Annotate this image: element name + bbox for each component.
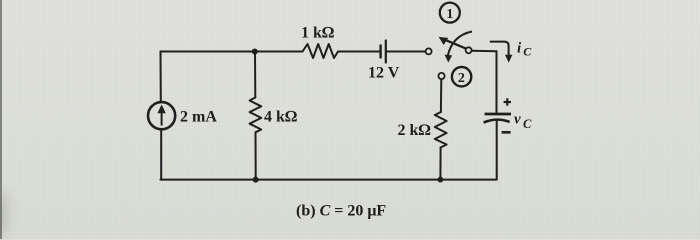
switch pivot terminal xyxy=(466,47,472,53)
wire 4k branch lower xyxy=(255,132,257,179)
switch motion arc with arrowhead xyxy=(445,32,473,63)
resistor R1 1 kOhm zigzag xyxy=(303,44,339,58)
wire 2k branch upper xyxy=(440,79,442,112)
svg-text:C: C xyxy=(523,117,532,131)
svg-text:1 kΩ: 1 kΩ xyxy=(301,25,334,42)
svg-text:2 kΩ: 2 kΩ xyxy=(398,122,431,139)
resistor R3 2 kOhm zigzag xyxy=(435,112,447,148)
wire top-left segment xyxy=(161,51,303,53)
switch terminal left xyxy=(426,48,432,54)
capacitor minus sign xyxy=(502,131,511,134)
wire right vertical upper xyxy=(496,51,498,112)
capacitor plus sign xyxy=(504,98,511,105)
current iC hook arrow xyxy=(490,42,513,63)
switch position-2 terminal xyxy=(438,73,444,79)
label vC xyxy=(514,112,532,131)
svg-text:i: i xyxy=(517,41,522,57)
wire bottom xyxy=(161,179,497,181)
svg-text:v: v xyxy=(514,112,521,128)
position label circled 1 xyxy=(440,3,460,23)
position label circled 2 xyxy=(452,67,471,86)
capacitor C bottom curved plate xyxy=(484,120,510,123)
node dot bottom-left xyxy=(253,177,259,183)
node dot bottom-right xyxy=(438,177,444,183)
svg-text:4 kΩ: 4 kΩ xyxy=(264,109,297,126)
svg-text:12 V: 12 V xyxy=(368,65,400,82)
node dot top xyxy=(252,49,258,55)
wire 2k branch lower xyxy=(439,148,441,180)
current source I1 2 mA xyxy=(148,102,175,129)
svg-text:1: 1 xyxy=(446,7,453,22)
wire switch pivot to top-right corner xyxy=(472,50,497,53)
svg-text:2: 2 xyxy=(458,71,465,86)
svg-text:2 mA: 2 mA xyxy=(180,109,217,126)
battery V1 12V short plate xyxy=(379,46,381,58)
wire left vertical upper xyxy=(160,52,162,102)
switch arm with arrowhead xyxy=(439,37,467,49)
svg-text:(b) C = 20 μF: (b) C = 20 μF xyxy=(296,203,386,220)
wire 4k branch upper xyxy=(254,52,256,97)
wire left vertical lower xyxy=(160,130,162,180)
wire right vertical lower xyxy=(496,122,498,180)
battery V1 12V long plate xyxy=(385,41,387,63)
label iC xyxy=(517,41,532,59)
capacitor C top plate xyxy=(485,113,511,116)
resistor R2 4 kOhm zigzag xyxy=(250,97,262,133)
wire battery to switch terminal xyxy=(387,51,425,53)
wire resistor to battery xyxy=(338,51,379,53)
svg-text:C: C xyxy=(523,45,532,59)
